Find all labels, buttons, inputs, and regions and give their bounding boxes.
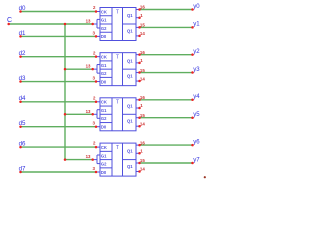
port d6 — [19, 141, 26, 149]
svg-text:2: 2 — [93, 5, 96, 10]
svg-text:G1: G1 — [101, 63, 107, 68]
svg-text:15: 15 — [140, 23, 145, 28]
svg-text:3: 3 — [93, 166, 96, 171]
pin 16 of U2 — [138, 50, 145, 56]
wire net y3 — [140, 72, 193, 74]
svg-text:3: 3 — [93, 30, 96, 35]
pin 14 of U3 (unconnected) — [138, 121, 145, 127]
svg-text:y6: y6 — [193, 139, 200, 145]
pin 14 of U4 (unconnected) — [138, 167, 145, 173]
wire net y7 — [140, 162, 193, 164]
svg-text:Q1: Q1 — [127, 74, 133, 79]
svg-text:D0: D0 — [101, 79, 107, 84]
svg-text:y4: y4 — [193, 94, 200, 100]
svg-text:CK: CK — [101, 9, 107, 14]
latch U4 (74LS75 dual D-latch section) — [93, 143, 140, 176]
port y4 — [191, 94, 200, 101]
port d1 — [19, 30, 26, 38]
pin 15 of U3 — [138, 113, 145, 119]
svg-text:Q1: Q1 — [127, 13, 133, 18]
svg-text:CK: CK — [101, 100, 107, 105]
pin 14 of U2 (unconnected) — [138, 76, 145, 82]
svg-text:C: C — [7, 17, 12, 24]
svg-text:15: 15 — [140, 113, 145, 118]
svg-text:13: 13 — [86, 64, 91, 69]
port d3 — [19, 75, 26, 83]
pin 16 of U1 — [138, 5, 145, 11]
svg-text:1: 1 — [140, 149, 143, 154]
wire net y0 — [140, 9, 193, 11]
port d4 — [19, 95, 26, 103]
svg-text:14: 14 — [140, 121, 145, 126]
port y6 — [191, 139, 200, 146]
svg-text:Q1: Q1 — [127, 149, 133, 154]
svg-text:1: 1 — [140, 13, 143, 18]
svg-text:G2: G2 — [101, 162, 107, 167]
svg-text:Q1: Q1 — [127, 164, 133, 169]
wire net y5 — [140, 117, 193, 119]
svg-text:2: 2 — [93, 50, 96, 55]
svg-text:CK: CK — [101, 55, 107, 60]
pin 14 of U1 (unconnected) — [138, 31, 145, 37]
svg-text:T: T — [116, 54, 120, 60]
port y7 — [191, 157, 200, 164]
latch U3 (74LS75 dual D-latch section) — [93, 98, 140, 131]
svg-text:16: 16 — [140, 95, 145, 100]
svg-text:y2: y2 — [193, 49, 200, 55]
svg-text:13: 13 — [86, 19, 91, 24]
wire net C branch to U3 pin 13 — [65, 113, 93, 115]
svg-text:15: 15 — [140, 68, 145, 73]
wire net d2 — [21, 56, 97, 58]
svg-text:Q1: Q1 — [127, 58, 133, 63]
svg-text:3: 3 — [93, 121, 96, 126]
pin 13 of U2 — [86, 64, 94, 71]
pin 13 of U1 — [86, 19, 94, 26]
svg-text:D0: D0 — [101, 124, 107, 129]
svg-text:2: 2 — [93, 95, 96, 100]
wire net C branch to U2 pin 13 — [65, 68, 93, 70]
wire net d0 — [21, 11, 97, 13]
port d2 — [19, 50, 26, 58]
svg-text:G1: G1 — [101, 108, 107, 113]
svg-text:2: 2 — [93, 141, 96, 146]
pin 3 of U3 — [93, 121, 98, 128]
svg-text:G2: G2 — [101, 26, 107, 31]
svg-text:14: 14 — [140, 76, 145, 81]
node marker bottom-right corner — [204, 176, 206, 178]
port d0 — [19, 5, 26, 13]
port d7 — [19, 165, 26, 173]
latch U1 (74LS75 dual D-latch section) — [93, 8, 140, 41]
wire net y6 — [140, 144, 193, 146]
svg-text:16: 16 — [140, 5, 145, 10]
wire net y1 — [140, 26, 193, 28]
wire net d3 — [21, 81, 97, 83]
port y1 — [191, 22, 200, 29]
pin 16 of U4 — [138, 140, 145, 146]
svg-text:13: 13 — [86, 109, 91, 114]
pin 3 of U1 — [93, 30, 98, 37]
port C — [7, 17, 12, 25]
wire net d5 — [21, 126, 97, 128]
svg-text:G1: G1 — [101, 18, 107, 23]
svg-text:T: T — [116, 9, 120, 15]
svg-text:G1: G1 — [101, 153, 107, 158]
pin 15 of U4 — [138, 158, 145, 164]
svg-text:T: T — [116, 145, 120, 151]
pin 13 of U4 — [86, 154, 94, 161]
pin 1 of U1 (unconnected) — [138, 13, 143, 19]
wire net y2 — [140, 54, 193, 56]
svg-text:y1: y1 — [193, 22, 200, 28]
pin 15 of U1 — [138, 23, 145, 29]
svg-text:1: 1 — [140, 58, 143, 63]
pin 3 of U2 — [93, 76, 98, 83]
wire net C branch to U4 pin 13 — [65, 159, 93, 161]
svg-text:Q1: Q1 — [127, 119, 133, 124]
pin 13 of U3 — [86, 109, 94, 116]
svg-text:14: 14 — [140, 31, 145, 36]
port y5 — [191, 112, 200, 119]
svg-text:D0: D0 — [101, 170, 107, 175]
port y3 — [191, 67, 200, 74]
pin 1 of U3 (unconnected) — [138, 103, 143, 109]
svg-text:14: 14 — [140, 167, 145, 172]
junction net C at U3 branch — [64, 113, 67, 116]
latch U2 (74LS75 dual D-latch section) — [93, 53, 140, 86]
wire net C vertical distribution — [64, 24, 66, 160]
svg-text:1: 1 — [140, 103, 143, 108]
wire net d1 — [21, 35, 97, 37]
port y0 — [191, 4, 200, 11]
pin 3 of U4 — [93, 166, 98, 173]
svg-text:D0: D0 — [101, 34, 107, 39]
wire net d6 — [21, 146, 97, 148]
wire net d7 — [21, 171, 97, 173]
junction net C at U1 branch — [64, 23, 67, 26]
svg-text:13: 13 — [86, 154, 91, 159]
junction net C at U2 branch — [64, 68, 67, 71]
svg-text:y3: y3 — [193, 67, 200, 73]
svg-text:Q1: Q1 — [127, 28, 133, 33]
wire net d4 — [21, 101, 97, 103]
svg-text:16: 16 — [140, 50, 145, 55]
pin 2 of U3 — [93, 95, 97, 103]
junction net C at U4 branch — [64, 158, 67, 161]
wire net y4 — [140, 99, 193, 101]
pin 2 of U2 — [93, 50, 97, 58]
svg-text:15: 15 — [140, 158, 145, 163]
svg-text:16: 16 — [140, 140, 145, 145]
svg-text:3: 3 — [93, 76, 96, 81]
port d5 — [19, 120, 26, 128]
pin 1 of U2 (unconnected) — [138, 58, 143, 64]
port y2 — [191, 49, 200, 56]
pin 2 of U1 — [93, 5, 97, 13]
svg-text:y7: y7 — [193, 157, 200, 163]
pin 15 of U2 — [138, 68, 145, 74]
pin 1 of U4 (unconnected) — [138, 149, 143, 155]
pin 2 of U4 — [93, 141, 97, 149]
svg-text:y5: y5 — [193, 112, 200, 118]
svg-text:Q1: Q1 — [127, 103, 133, 108]
wire net C horizontal from port C to U1 pin 13 — [9, 23, 93, 25]
svg-text:G2: G2 — [101, 116, 107, 121]
svg-text:T: T — [116, 100, 120, 106]
svg-text:G2: G2 — [101, 71, 107, 76]
svg-text:y0: y0 — [193, 4, 200, 10]
pin 16 of U3 — [138, 95, 145, 101]
svg-text:CK: CK — [101, 145, 107, 150]
